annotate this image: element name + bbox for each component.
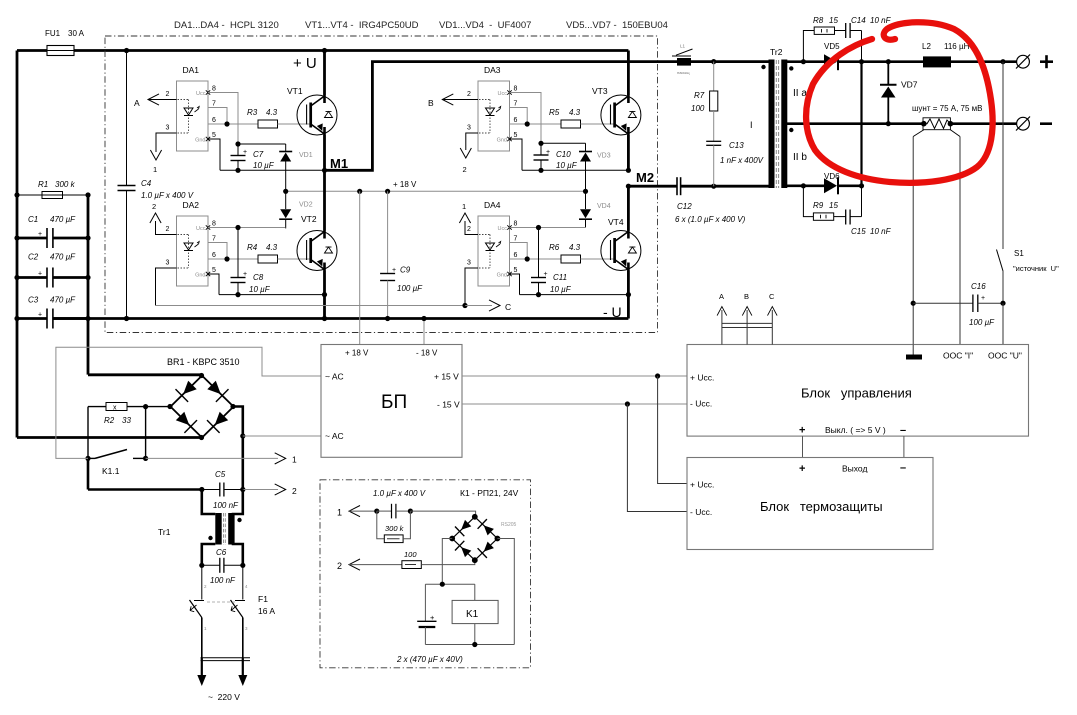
wire M2 to C12 [628,185,677,188]
svg-text:100 nF: 100 nF [213,501,239,510]
svg-text:R6: R6 [549,243,560,252]
svg-text:5: 5 [212,132,216,139]
node BR1 right [230,404,235,409]
node net1 cap left [374,509,379,514]
svg-text:5: 5 [514,132,518,139]
wire VD6 to common [839,185,862,188]
capacitor C2 row [17,276,47,279]
DA2 pin7 wire [208,243,227,260]
node C3 right [85,316,90,321]
svg-text:F1: F1 [258,594,268,604]
svg-text:1.0 µF x 400 V: 1.0 µF x 400 V [141,191,194,200]
node VT2 bottom rail [322,316,327,321]
relay coil K1 [452,600,498,623]
svg-text:C14: C14 [851,16,866,25]
svg-text:II a: II a [793,88,807,99]
node DA3 pin6 [525,121,530,126]
svg-text:БП: БП [381,392,407,413]
svg-text:DA1: DA1 [183,65,200,75]
svg-text:100 µF: 100 µF [969,318,995,327]
wire Tr1 right lead [232,490,243,515]
svg-text:1 nF x 400V: 1 nF x 400V [720,156,764,165]
wire C12 to Tr2 [681,185,769,188]
capacitor C4 lead top [126,51,128,186]
diode VD7 [887,62,889,85]
net C arrow [465,305,492,307]
transformer Tr2 secondary bar [781,60,787,189]
svg-text:Выкл. ( => 5 V ): Выкл. ( => 5 V ) [825,425,886,435]
svg-text:~ AC: ~ AC [325,372,344,382]
wire left rail [16,51,19,438]
DA2 pin5 wire [208,274,219,295]
svg-text:Gnd: Gnd [195,273,205,279]
svg-text:2: 2 [152,202,156,211]
svg-text:R5: R5 [549,108,560,117]
svg-text:BR1 - KBPC 3510: BR1 - KBPC 3510 [167,357,240,367]
svg-text:C13: C13 [729,141,744,150]
svg-text:2: 2 [166,226,170,233]
wire secondary bottom tap [786,185,825,188]
svg-text:7: 7 [514,101,518,108]
svg-text:C8: C8 [253,273,264,282]
DA2 pin8 wire [208,227,286,229]
capacitor C4 lead bottom [126,191,128,319]
svg-text:1: 1 [204,626,207,631]
svg-text:3: 3 [166,125,170,132]
svg-text:C1: C1 [28,215,38,224]
K1 section dash-dot border [320,480,531,668]
wire +18 to BP [359,191,361,344]
node coil top [440,582,445,587]
wire coil top to K1 [474,584,476,600]
svg-text:+: + [392,267,396,274]
svg-text:+ 18 V: + 18 V [345,349,369,358]
svg-text:+: + [430,613,435,622]
node RS205 top [472,514,478,520]
node M1 [322,168,327,173]
svg-text:Gnd: Gnd [497,273,507,279]
capacitor C12 [676,177,678,195]
mains separator lines [201,657,251,659]
svg-text:C2: C2 [28,253,39,262]
node C3 left [14,316,19,321]
diode VD4 [585,191,587,209]
svg-text:5: 5 [514,267,518,274]
svg-text:+ Ucc.: + Ucc. [690,480,714,490]
svg-text:+ Ucc.: + Ucc. [690,373,714,383]
wire cap to bridge top [410,511,475,517]
svg-text:+: + [243,149,247,156]
svg-text:VD1...VD4 - UF4007: VD1...VD4 - UF4007 [439,20,531,31]
transformer Tr2 primary bar [769,60,775,189]
svg-text:C3: C3 [28,296,39,305]
DA3 pin5 wire [510,139,523,170]
svg-text:II b: II b [793,152,807,163]
node C13 bottom [711,184,716,189]
node M2 return [626,168,631,173]
node DA1 pin6 [224,121,229,126]
wire net C line [156,305,466,307]
resistor R1 wire [17,194,88,196]
capacitor C4 [118,185,136,187]
svg-text:C4: C4 [141,179,152,188]
svg-text:10 µF: 10 µF [556,161,578,170]
svg-text:DA1...DA4 - HCPL 3120: DA1...DA4 - HCPL 3120 [174,20,279,31]
capacitor C7 [237,144,239,156]
svg-text:насыщ: насыщ [677,70,690,75]
svg-text:1: 1 [337,508,342,518]
node DA4 pin8 / C11 [536,225,541,230]
wire bottom -U rail [53,317,629,320]
svg-text:5: 5 [212,267,216,274]
svg-text:VD6: VD6 [824,172,840,181]
capacitor C14 [845,23,847,38]
resistor R8 [814,27,834,34]
svg-text:2: 2 [337,561,342,571]
node top rail / C4 [124,48,129,53]
DA4 pin8 wire [510,227,586,229]
svg-text:R9: R9 [813,201,824,210]
node C7 top [235,141,240,146]
resistor R5 [561,120,581,128]
wire 100 to bridge bottom [421,560,475,564]
svg-text:VT2: VT2 [301,214,317,224]
node C5 right [240,487,245,492]
svg-text:M1: M1 [330,156,348,171]
svg-text:+ 15 V: + 15 V [434,372,459,382]
svg-text:I: I [750,120,753,130]
svg-text:A: A [719,292,724,301]
svg-text:C: C [769,292,775,301]
diode VD6 [824,178,837,193]
svg-text:+: + [38,312,42,319]
svg-text:8: 8 [514,221,518,228]
Tr2 primary phase dot [761,65,765,69]
wire -15V [462,403,687,405]
svg-text:C7: C7 [253,150,264,159]
svg-text:10 µF: 10 µF [253,161,275,170]
Tr1 phase dot left [208,536,212,540]
transistor VT4 [627,186,630,230]
node C4 bottom [124,316,129,321]
node DA4 pin6 [525,256,530,261]
svg-text:300 k: 300 k [385,524,405,533]
opto-coupler DA3 [478,81,510,151]
capacitor 1uF (K1 box) [377,510,392,512]
svg-text:- 18 V: - 18 V [416,349,438,358]
inductor L2 [923,56,951,67]
capacitor C13 [706,140,721,142]
capacitor 470uF (K1 box) [424,584,426,621]
capacitor C15 [845,210,847,225]
node VD1/VD2 +18 [283,189,288,194]
svg-text:Блок термозащиты: Блок термозащиты [760,499,883,514]
DA1 pin3 wire [156,133,177,152]
node R1 right [85,192,90,197]
capacitor C5 [202,489,220,491]
wire -15 to thermo [627,404,687,512]
svg-text:10 nF: 10 nF [870,16,892,25]
capacitor C6 [202,564,220,566]
wire cap rail to bridge top [88,373,202,376]
resistor R3 [258,120,278,128]
node BR1 left [167,404,172,409]
wire R2 row [88,406,106,408]
svg-text:6: 6 [212,252,216,259]
resistor R9 [813,213,833,220]
node VT2 emitter return [322,292,327,297]
wire RS205 left to coil row [442,539,452,585]
node +18 / C9 [385,189,390,194]
terminal minus [1017,117,1030,130]
svg-text:1: 1 [153,165,157,174]
transistor VT2 [323,170,326,230]
svg-text:2: 2 [204,584,207,589]
svg-text:100: 100 [404,550,417,559]
node C5 left [199,487,204,492]
resistor R4 [258,255,278,263]
svg-text:RS205: RS205 [501,522,517,528]
DA2 pin3 wire [156,268,177,306]
wire R5 to VT3 gate [581,123,615,125]
svg-text:–: – [900,425,906,437]
node BR1 bottom [199,435,204,440]
node C1 left [14,235,19,240]
node R8 left [801,59,806,64]
svg-text:К1 - РП21, 24V: К1 - РП21, 24V [460,488,519,498]
DA3 pin6 wire [510,123,562,125]
wire L2 to plus terminal [951,60,1017,63]
svg-text:1: 1 [292,455,297,465]
diode VD1 [285,144,287,151]
capacitor C1 [46,228,48,248]
breaker F1 pole 1 [201,565,203,599]
svg-text:2: 2 [467,91,471,98]
svg-text:2: 2 [292,486,297,496]
svg-text:15: 15 [829,16,838,25]
svg-text:C16: C16 [971,282,986,291]
resistor 300k bypass [377,511,385,539]
svg-text:6 x (1.0 µF x 400 V): 6 x (1.0 µF x 400 V) [675,215,746,224]
svg-text:7: 7 [514,236,518,243]
wire C7top to VD1 [238,143,286,145]
breaker F1 link [207,601,236,603]
svg-text:C: C [505,302,511,312]
node A arrow [148,94,159,105]
node K1.1 left [85,456,90,461]
node C10 bottom [538,168,543,173]
snubber R9/C15 loop [803,186,813,217]
svg-text:- Ucc.: - Ucc. [690,507,712,517]
svg-text:4.3: 4.3 [569,108,581,117]
inductor L1 [677,58,691,66]
svg-text:R8: R8 [813,16,824,25]
wire RS205 right down [497,539,514,645]
svg-text:+: + [38,271,42,278]
svg-text:Ucc: Ucc [498,226,508,232]
diode VD5 [824,54,837,69]
svg-text:6: 6 [514,117,518,124]
svg-text:DA4: DA4 [484,200,501,210]
wire +15V [462,375,687,377]
svg-text:VD5: VD5 [824,42,840,51]
svg-text:1: 1 [462,202,466,211]
node R9 left [801,183,806,188]
transformer Tr2 core [775,60,777,188]
svg-text:C10: C10 [556,150,571,159]
svg-text:B: B [744,292,749,301]
wire +15 to thermo [658,376,687,484]
svg-text:C5: C5 [215,470,226,479]
svg-text:8: 8 [212,86,216,93]
wire R3 to VT1 gate [278,123,311,125]
resistor 100 [402,561,421,569]
diode VD2 [285,191,287,209]
svg-text:VD2: VD2 [299,202,313,209]
breaker F1 pole 2 [242,565,244,599]
wire S1 to OOC U [1002,303,1004,344]
DA1 pin5 wire [208,139,220,170]
wire shunt sense left [912,137,914,355]
svg-text:8: 8 [212,221,216,228]
svg-text:100 nF: 100 nF [210,576,236,585]
transformer Tr1 right bar [228,513,234,545]
opto-coupler DA4 [478,216,510,286]
Tr1 phase dot right [237,518,241,522]
svg-text:4.3: 4.3 [569,243,581,252]
node RS205 right [495,536,501,542]
transistor VT1 [323,51,326,96]
ground symbol [912,345,914,355]
wire -18 to BP [423,319,425,345]
node M2 [626,184,631,189]
svg-text:3: 3 [467,125,471,132]
node net1 cap right [408,509,413,514]
svg-text:DA3: DA3 [484,65,501,75]
svg-text:S1: S1 [1014,249,1024,258]
svg-text:- Ucc.: - Ucc. [690,399,712,409]
svg-text:+: + [546,149,550,156]
node VD6 out [859,183,864,188]
shunt resistor [923,118,950,130]
svg-text:R2: R2 [104,416,115,425]
node R2 right / K1.1 drop [143,404,148,409]
node +18 / BP drop [357,189,362,194]
svg-text:+ 18 V: + 18 V [393,180,417,189]
capacitor C8 [237,228,239,278]
svg-text:+: + [38,231,42,238]
diode VD3 [585,143,587,151]
node C1 right [85,235,90,240]
svg-text:2: 2 [166,91,170,98]
opto-coupler DA1 [177,81,209,151]
svg-text:C6: C6 [216,548,227,557]
net 2 arrow up (DA2) [150,213,161,223]
svg-text:VD5...VD7 - 150EBU04: VD5...VD7 - 150EBU04 [566,20,668,31]
svg-text:R7: R7 [694,91,705,100]
svg-text:B: B [428,98,434,108]
svg-text:10 µF: 10 µF [550,285,572,294]
node RS205 bottom [472,557,478,563]
wire secondary top tap [786,60,825,63]
DA1 pin7 wire [208,108,227,125]
node R1 left [14,192,19,197]
svg-text:x: x [113,405,117,412]
svg-text:Gnd: Gnd [195,138,205,144]
svg-text:300 k: 300 k [55,180,76,189]
svg-text:Выход: Выход [842,464,867,474]
svg-text:A: A [134,98,140,108]
snubber R8/C14 loop [803,31,814,62]
svg-text:2 x (470 µF x 40V): 2 x (470 µF x 40V) [396,655,463,664]
svg-text:+ U: + U [293,55,317,72]
svg-text:C11: C11 [553,273,567,282]
wire BR1 right down [233,407,243,490]
svg-text:- 15 V: - 15 V [437,400,460,410]
svg-text:VT3: VT3 [592,86,608,96]
svg-text:Tr2: Tr2 [770,47,783,57]
node K1.1 right [143,456,148,461]
svg-text:100: 100 [691,104,705,113]
transformer Tr1 left bar [215,513,221,545]
DA1 pin6 wire [208,123,258,125]
transformer Tr1 core [223,513,225,545]
svg-text:VD4: VD4 [597,203,611,210]
svg-text:VT1...VT4 - IRG4PC50UD: VT1...VT4 - IRG4PC50UD [305,20,419,31]
svg-text:2: 2 [463,165,467,174]
resistor R1 [42,192,63,199]
wire DA2 gnd row [219,294,325,296]
net 1 arrow up (DA4) [459,213,470,223]
switch S1 [997,250,1004,272]
svg-text:7: 7 [212,101,216,108]
node plus sense [1000,59,1005,64]
wire Tr1 right bottom [232,544,243,565]
wire DA1 gnd row (M1 return) [220,169,325,171]
mains arrow right [242,658,244,676]
svg-text:Ucc: Ucc [498,91,508,97]
wire shunt to minus terminal [950,122,1016,125]
node BR1 top [199,373,204,378]
svg-text:4: 4 [245,584,248,589]
capacitor C1 row [17,237,47,240]
wire plus sense / S1 [1002,62,1004,249]
net 1 wire to K1 block [146,457,278,459]
wire Vykl plus [802,436,804,457]
Tr2 secondary phase dot a [789,66,793,70]
svg-text:K1: K1 [466,609,479,620]
capacitor C3 [46,309,48,329]
svg-text:R4: R4 [247,243,258,252]
DA1 pin2 wire to A [148,99,177,101]
svg-text:4.3: 4.3 [266,243,278,252]
svg-text:8: 8 [514,86,518,93]
svg-text:C15: C15 [851,227,866,236]
node C6 left [199,563,204,568]
resistor R6 [561,255,581,263]
wire M1 to top route [325,62,678,171]
DA1 pin8 wire [208,93,238,145]
svg-text:"источник U": "источник U" [1013,264,1059,273]
power supply block BP [321,345,462,458]
svg-text:100 µF: 100 µF [397,284,423,293]
DA3 pin2 wire to B [442,99,478,101]
resistor R7 [713,62,715,91]
net 1 arrow down (DA1) [150,150,161,160]
svg-text:VD7: VD7 [901,80,918,90]
wire secondary center tap [786,122,924,125]
wire rectifier common vertical [860,62,862,186]
